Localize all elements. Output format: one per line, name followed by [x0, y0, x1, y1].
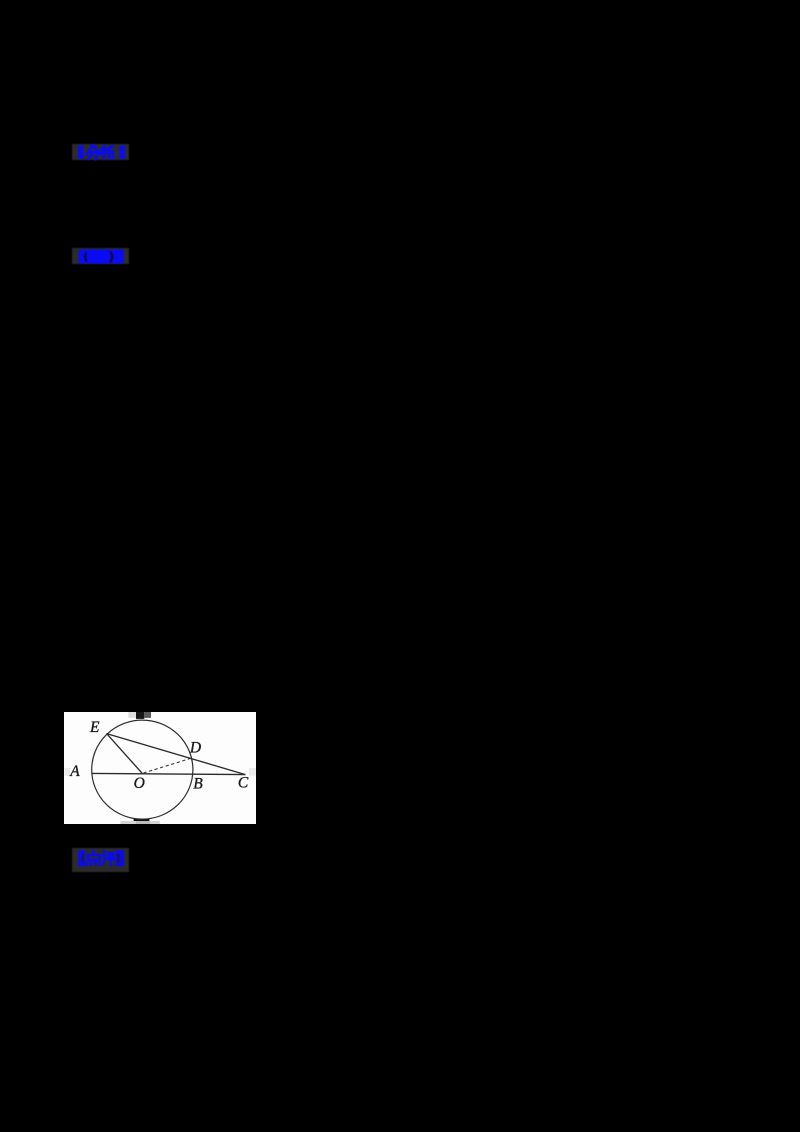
- svg-text:B: B: [193, 775, 203, 792]
- svg-text:D: D: [189, 740, 201, 757]
- svg-text:O: O: [134, 775, 145, 792]
- svg-text:E: E: [89, 719, 100, 736]
- svg-text:C: C: [238, 775, 249, 792]
- svg-text:A: A: [69, 763, 80, 780]
